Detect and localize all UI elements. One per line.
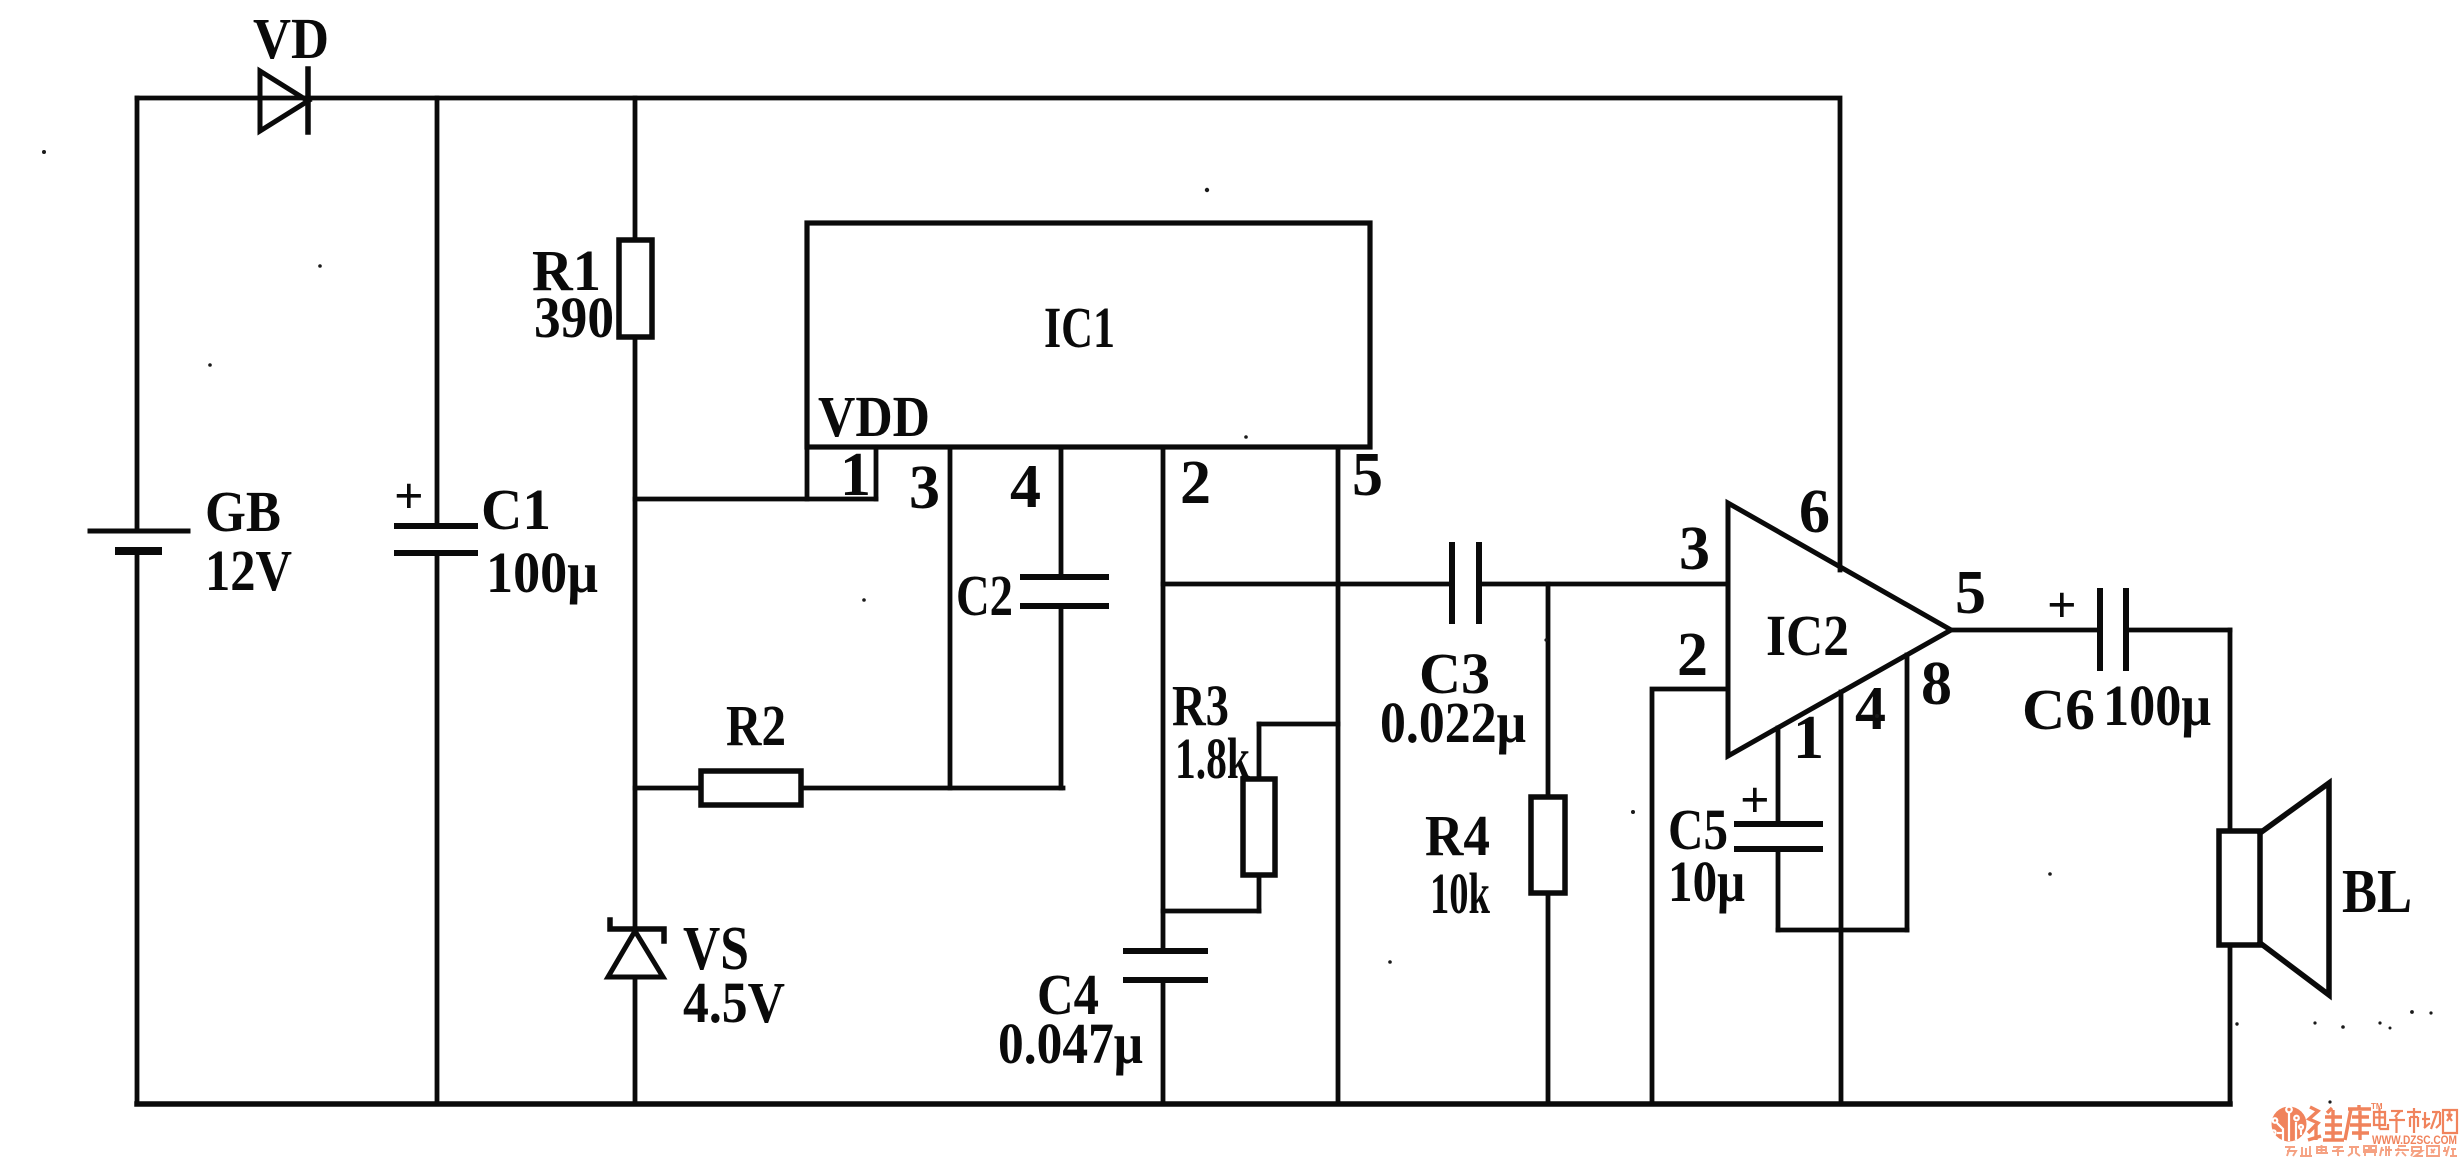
svg-text:TM: TM	[2371, 1102, 2383, 1111]
svg-text:2: 2	[1677, 621, 1708, 689]
svg-text:5: 5	[1955, 559, 1986, 627]
svg-text:0.022μ: 0.022μ	[1380, 690, 1526, 755]
svg-text:3: 3	[1679, 515, 1710, 583]
svg-text:8: 8	[1921, 650, 1952, 718]
svg-text:BL: BL	[2342, 858, 2412, 926]
svg-text:390: 390	[534, 285, 614, 350]
svg-text:1: 1	[840, 441, 871, 509]
svg-text:+: +	[2047, 577, 2077, 634]
svg-text:IC1: IC1	[1044, 295, 1115, 360]
svg-text:IC2: IC2	[1766, 603, 1849, 668]
svg-text:R2: R2	[726, 693, 786, 758]
svg-text:C6: C6	[2022, 677, 2095, 742]
svg-text:6: 6	[1799, 478, 1830, 546]
svg-text:+: +	[394, 468, 424, 525]
svg-text:VD: VD	[253, 6, 329, 71]
svg-text:100μ: 100μ	[486, 540, 598, 605]
svg-text:R4: R4	[1425, 803, 1490, 868]
svg-text:WWW.DZSC.COM: WWW.DZSC.COM	[2372, 1133, 2457, 1147]
svg-text:5: 5	[1352, 441, 1383, 509]
svg-text:3: 3	[909, 454, 940, 522]
svg-text:2: 2	[1180, 449, 1211, 517]
svg-text:4: 4	[1010, 453, 1041, 521]
svg-text:C2: C2	[956, 563, 1013, 628]
svg-text:12V: 12V	[205, 538, 292, 603]
svg-text:C1: C1	[481, 477, 551, 542]
svg-text:10k: 10k	[1430, 861, 1490, 926]
svg-text:100μ: 100μ	[2103, 673, 2211, 738]
svg-text:VDD: VDD	[818, 384, 930, 449]
svg-text:+: +	[1740, 772, 1770, 829]
svg-text:1.8k: 1.8k	[1175, 726, 1251, 791]
svg-text:4: 4	[1855, 675, 1886, 743]
svg-text:1: 1	[1793, 704, 1824, 772]
svg-text:4.5V: 4.5V	[683, 970, 785, 1035]
svg-text:GB: GB	[205, 479, 281, 544]
svg-text:10μ: 10μ	[1668, 849, 1745, 914]
svg-text:0.047μ: 0.047μ	[998, 1011, 1143, 1076]
